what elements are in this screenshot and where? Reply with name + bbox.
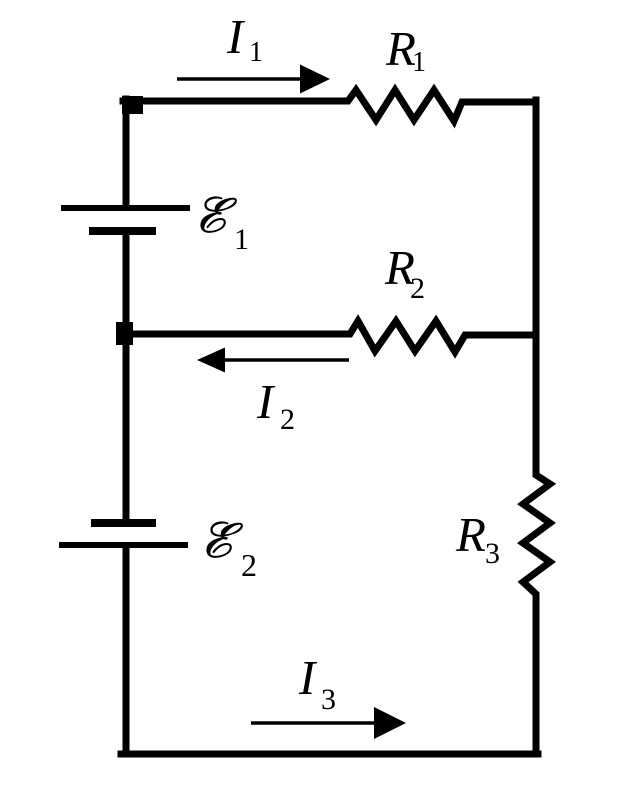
- svg-text:3: 3: [485, 537, 500, 570]
- svg-text:1: 1: [412, 47, 426, 78]
- svg-text:2: 2: [241, 547, 257, 583]
- svg-text:1: 1: [234, 223, 249, 256]
- svg-text:2: 2: [280, 403, 295, 436]
- svg-text:I: I: [298, 650, 318, 705]
- svg-text:2: 2: [410, 272, 425, 305]
- svg-text:3: 3: [321, 683, 336, 716]
- svg-text:R: R: [455, 507, 486, 562]
- svg-text:I: I: [226, 9, 246, 64]
- svg-text:1: 1: [249, 37, 263, 68]
- svg-text:I: I: [256, 374, 276, 429]
